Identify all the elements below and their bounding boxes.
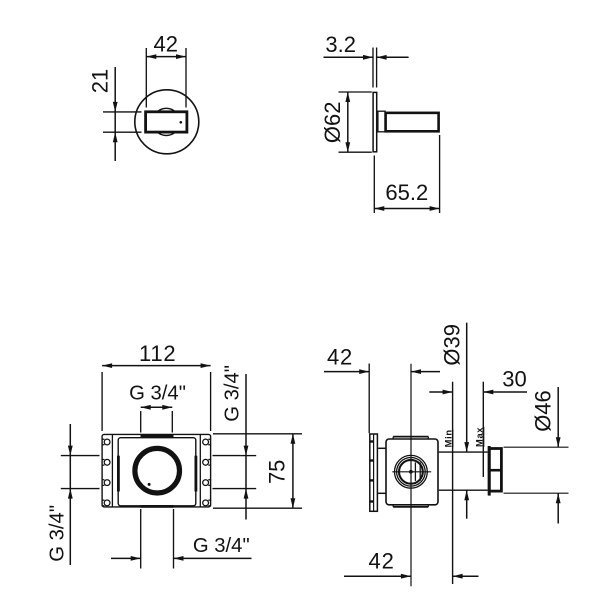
body bottom lip left curl (392, 505, 394, 507)
dim line 21 vertical (114, 67, 116, 161)
plate hatch tick 3 (370, 479, 374, 481)
plate hatch tick 4 (370, 500, 374, 502)
ext line right for bottom G3/4 (173, 509, 175, 569)
right port opening thick band (194, 456, 197, 492)
left port connector symbol 3 (102, 480, 105, 486)
Min wall surface line (452, 382, 454, 584)
left port connector symbol 4 (102, 500, 105, 506)
body bottom lip (393, 506, 428, 508)
dim line bottom 42 left tail (344, 575, 411, 577)
ext line top for dim dia62 (339, 91, 372, 93)
dim line dia39 lower shaft (466, 490, 468, 519)
index dot in valve ring (148, 483, 151, 486)
handle hub circle behind lever (153, 108, 180, 135)
dim line top 42 left tail (324, 371, 369, 373)
ext line top for dia46 (504, 446, 569, 448)
ext line left G3/4 upper (61, 455, 100, 457)
outlet pipe top edge (439, 451, 488, 453)
left port channel line (111, 434, 113, 507)
valve opening thick ring (135, 448, 180, 493)
lever plate rectangle 42x21 (146, 112, 187, 132)
collar bottom edge (378, 492, 386, 494)
svg-text:112: 112 (139, 341, 176, 366)
body bottom lip right curl (427, 505, 429, 507)
ext line right for top G3/4 (171, 411, 173, 433)
svg-text:G 3/4": G 3/4" (129, 383, 186, 405)
ext line top for dim 75 (213, 433, 302, 435)
body top lip right curl (427, 437, 429, 439)
ext line right of dim 42 (185, 48, 187, 108)
right port connector symbol 4 (208, 500, 211, 506)
dim line top 42 right tail (411, 371, 440, 373)
dim line 3.2 right tail (377, 56, 409, 58)
ext line left for dim 65.2 (373, 156, 375, 214)
valve slot right line (419, 462, 421, 481)
bottom port opening thick band (141, 505, 174, 508)
svg-text:42: 42 (369, 549, 395, 574)
body vertical axis centerline (410, 364, 412, 587)
collar top edge (378, 447, 386, 449)
svg-text:75: 75 (265, 460, 290, 484)
svg-text:Ø62: Ø62 (320, 102, 345, 144)
dim line dia46 upper shaft (557, 387, 559, 447)
handle lever cylinder side view (386, 113, 439, 131)
dim line dia46 lower shaft (557, 493, 559, 523)
index dot on lever (180, 121, 183, 124)
dim line bottom 42 right tail (453, 575, 479, 577)
ext line plate face for top 42 (368, 364, 370, 434)
dim line 30 left tail (429, 391, 452, 393)
left port connector symbol 2 (102, 460, 105, 466)
svg-text:3.2: 3.2 (325, 32, 356, 57)
svg-text:Ø46: Ø46 (530, 390, 555, 432)
svg-text:42: 42 (154, 32, 178, 57)
valve outer circle (395, 455, 428, 488)
ext line right G3/4 lower (213, 488, 257, 490)
svg-text:Ø39: Ø39 (439, 324, 464, 366)
top port opening thick band (141, 435, 174, 438)
body top lip left curl (392, 437, 394, 439)
left port opening thick band (117, 456, 120, 492)
wall plate side view (373, 92, 377, 151)
svg-text:G 3/4": G 3/4" (193, 535, 250, 557)
valve outer ring inner circle (397, 458, 426, 487)
mixer body outline side view (386, 439, 438, 505)
dim line bottom G3/4 left tail (111, 557, 141, 559)
valve slot left line (414, 462, 416, 481)
right port connector symbol 1 (208, 439, 211, 445)
wall plate side view D (370, 434, 378, 511)
Max wall surface line (482, 382, 484, 477)
ext line left for dim 112 (101, 372, 103, 431)
ext line left for top G3/4 (140, 411, 142, 433)
cap left collar edge (488, 446, 491, 496)
escutcheon circle (view A) (135, 90, 199, 154)
plate hatch tick 2 (370, 459, 374, 461)
body outer square (102, 434, 211, 507)
dim line left G3/4 vertical (69, 424, 71, 565)
ext line right for dim 65.2 (439, 135, 441, 213)
threaded cap/aerator thick outline (489, 449, 501, 492)
dim line right G3/4 vertical (245, 374, 247, 520)
ext line plate front for dim 3.2 (372, 48, 374, 88)
valve inner circle (399, 460, 423, 484)
ext line left G3/4 lower (61, 488, 100, 490)
ext line right G3/4 upper (241, 455, 257, 457)
svg-text:G 3/4": G 3/4" (221, 365, 243, 422)
ext line left of dim 42 (145, 48, 147, 108)
valve center dot (409, 470, 413, 474)
ext line left for bottom G3/4 (140, 509, 142, 569)
svg-text:21: 21 (87, 69, 112, 93)
dim line dia62 (347, 92, 349, 152)
body inner rounded square (118, 438, 196, 506)
ext line from body right upper (213, 455, 241, 457)
dim line bottom G3/4 right tail (174, 557, 252, 559)
ext line bottom for dia46 (504, 492, 569, 494)
ext line plate back for dim 3.2 (376, 48, 378, 88)
valve horizontal centerline (392, 471, 431, 473)
plate hatch tick 1 (370, 440, 374, 442)
svg-text:30: 30 (502, 366, 526, 391)
dim line 42 (146, 56, 186, 58)
svg-text:G 3/4": G 3/4" (46, 505, 68, 562)
outlet pipe bottom edge (439, 489, 488, 491)
dim line 75 (292, 434, 294, 508)
ext line bottom for dim 75 (213, 507, 302, 509)
ext line bottom for dim dia62 (339, 151, 372, 153)
svg-text:Min: Min (443, 429, 453, 447)
left port connector symbol 1 (102, 439, 105, 445)
dim line dia39 upper shaft (466, 323, 468, 453)
svg-text:42: 42 (327, 345, 353, 370)
ext line top of dim 21 (103, 111, 142, 113)
body top lip (393, 436, 428, 438)
svg-text:Max: Max (474, 427, 484, 447)
svg-text:65.2: 65.2 (385, 180, 428, 205)
right port connector symbol 2 (208, 460, 211, 466)
dim line top G3/4 (141, 406, 173, 408)
dim line 3.2 left tail (324, 56, 374, 58)
dim line 30 right tail (483, 391, 527, 393)
dim line 112 (102, 365, 211, 367)
ext line bottom of dim 21 (103, 131, 142, 133)
right port connector symbol 3 (208, 480, 211, 486)
cap middle line (488, 469, 502, 472)
wall plate inner line (373, 434, 375, 511)
handle stem side view (378, 111, 385, 132)
ext line right for dim 112 (210, 372, 212, 431)
right port channel line (199, 434, 201, 507)
dim line 65.2 (374, 208, 439, 210)
